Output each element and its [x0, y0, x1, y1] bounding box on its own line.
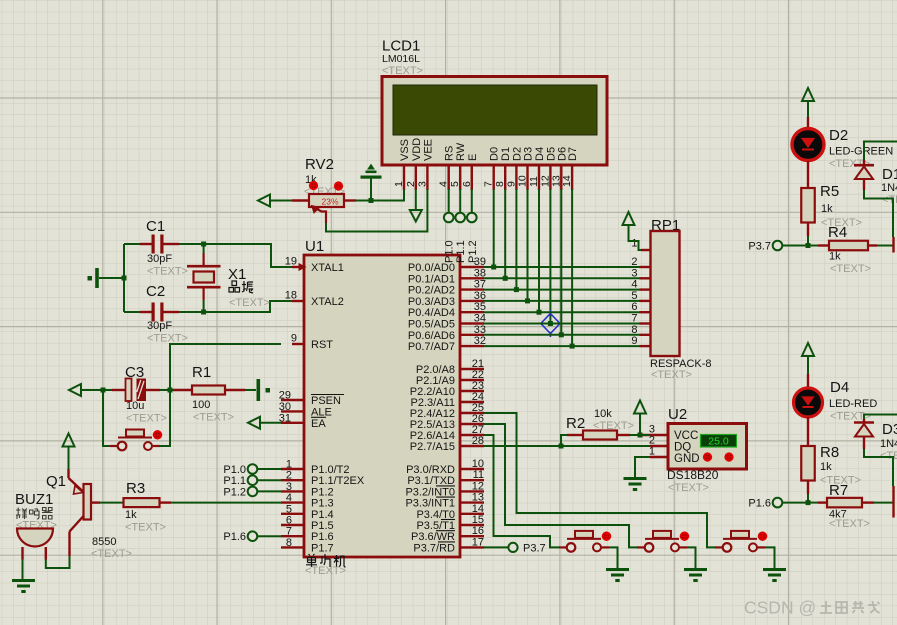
ground terminal (down arrow) at LCD VDD	[410, 210, 422, 222]
svg-text:23%: 23%	[321, 197, 338, 207]
power terminal bar left of crystal rail	[88, 268, 125, 288]
wire R2 right to VCC node	[630, 434, 650, 436]
svg-text:R1: R1	[192, 364, 211, 381]
svg-text:<TEXT>: <TEXT>	[126, 413, 167, 425]
svg-text:Q1: Q1	[46, 473, 66, 490]
wire node to R4	[808, 245, 818, 247]
svg-text:P1.6: P1.6	[311, 531, 334, 543]
resistor R7 4k7	[818, 482, 874, 530]
wire R7 right toward off-page component	[874, 502, 893, 504]
wire RP1 pin1 to power arrow	[629, 225, 642, 251]
svg-text:RV2: RV2	[305, 156, 334, 173]
resistor R2 10k	[566, 408, 634, 440]
svg-text:10k: 10k	[594, 408, 612, 420]
svg-text:5: 5	[631, 290, 637, 302]
svg-text:2: 2	[631, 256, 637, 268]
junction C1/X1 top	[201, 242, 206, 247]
svg-text:E: E	[467, 154, 479, 161]
svg-text:RS: RS	[444, 146, 456, 161]
diode D1 1N4007	[854, 160, 897, 206]
resistor pack RP1 RESPACK-8	[631, 217, 711, 381]
svg-text:19: 19	[285, 256, 297, 268]
svg-text:8: 8	[631, 324, 637, 336]
svg-text:P3.0/RXD: P3.0/RXD	[406, 464, 455, 476]
svg-text:16: 16	[472, 525, 484, 537]
svg-text:ALE: ALE	[311, 406, 332, 418]
wire P1.6 terminal to node	[783, 502, 809, 504]
terminals P1.0 P1.1 P1.2 P1.6 left of U1	[223, 464, 281, 543]
svg-text:P1.6: P1.6	[223, 531, 246, 543]
svg-text:6: 6	[461, 181, 473, 187]
svg-text:4: 4	[631, 279, 637, 291]
svg-text:EA: EA	[311, 418, 326, 430]
wire R3 to U1 pin4 P1.3	[171, 502, 281, 504]
svg-text:VSS: VSS	[399, 139, 411, 161]
wire U2 GND to ground	[635, 457, 650, 477]
wire LCD VEE pin3 down-left to RV2 wiper	[326, 189, 427, 232]
svg-text:25.0: 25.0	[708, 436, 729, 448]
wire VCC node to U2 VCC pin	[640, 434, 650, 436]
wire U1 pin25 P2.4 to button3	[484, 413, 716, 547]
svg-text:D0: D0	[489, 147, 501, 161]
svg-text:10: 10	[517, 175, 529, 187]
wire R5 to P3.7 node	[807, 236, 809, 246]
svg-text:R4: R4	[828, 224, 847, 241]
buzzer BUZ1 蜂鸣器	[15, 491, 57, 560]
wire U1 pin26 P2.5 to button2	[484, 424, 638, 547]
svg-text:<TE: <TE	[882, 194, 897, 206]
svg-text:P0.7/AD7: P0.7/AD7	[408, 341, 455, 353]
junction reset rail / C3-R1 row	[168, 388, 173, 393]
svg-text:U2: U2	[668, 406, 687, 423]
svg-text:4: 4	[286, 492, 292, 504]
svg-text:LCD1: LCD1	[382, 38, 420, 55]
wire button2 to ground	[687, 547, 696, 568]
wire C3 to R1	[160, 389, 173, 391]
ground symbol below button1	[606, 570, 629, 581]
svg-text:1k: 1k	[820, 461, 832, 473]
svg-text:8: 8	[286, 537, 292, 549]
wire LCD VDD pin2 down to ground arrow	[415, 189, 417, 210]
wire C3 row from arrow terminal	[81, 389, 112, 391]
svg-text:30: 30	[279, 401, 291, 413]
svg-text:<TEXT>: <TEXT>	[193, 412, 234, 424]
svg-text:P1.5: P1.5	[311, 520, 334, 532]
svg-text:1k: 1k	[125, 509, 137, 521]
svg-text:3: 3	[286, 481, 292, 493]
junction P1.6 node / R7	[806, 500, 811, 505]
wire RST pin9 to reset rail	[161, 344, 282, 446]
junction C3 row / reset button branch	[101, 388, 106, 393]
svg-text:P0.1/AD1: P0.1/AD1	[408, 273, 455, 285]
LCD1 pin stubs, pin numbers 1-14 and pin names	[393, 138, 579, 190]
terminals P1.0 P1.1 P1.2 below LCD RS/RW/E pins	[444, 189, 479, 263]
wire D1 top to right rail	[864, 142, 897, 161]
svg-text:P1.4: P1.4	[311, 509, 334, 521]
svg-text:13: 13	[472, 492, 484, 504]
LCD display LCD1 LM016L body and screen	[382, 38, 607, 166]
wire LCD VSS pin1 to power rail node	[372, 189, 404, 201]
wire C2 row from left rail to XTAL2	[124, 301, 292, 312]
power terminal (bar symbol) above VSS node	[361, 165, 382, 200]
svg-text:30pF: 30pF	[147, 253, 172, 265]
svg-text:P3.7/RD: P3.7/RD	[413, 542, 455, 554]
svg-text:1k: 1k	[821, 203, 833, 215]
wire reset-button left leg	[103, 390, 110, 446]
svg-text:PSEN: PSEN	[311, 395, 341, 407]
svg-text:P1.2: P1.2	[467, 240, 479, 263]
svg-text:VCC: VCC	[674, 430, 698, 442]
ground symbol below button3	[763, 570, 786, 581]
svg-text:P1.0: P1.0	[223, 464, 246, 476]
svg-text:P1.1/T2EX: P1.1/T2EX	[311, 475, 365, 487]
svg-text:8: 8	[494, 181, 506, 187]
terminal P3.7 right section	[748, 241, 782, 253]
svg-text:<TEXT>: <TEXT>	[91, 548, 132, 560]
svg-text:<TEXT>: <TEXT>	[830, 263, 871, 275]
wire R1 to power bar terminal	[245, 389, 256, 391]
resistor R5 1k	[801, 183, 862, 236]
svg-text:R3: R3	[126, 480, 145, 497]
svg-text:<TEXT>: <TEXT>	[125, 522, 166, 534]
svg-text:R5: R5	[820, 183, 839, 200]
svg-text:P1.1: P1.1	[223, 475, 246, 487]
temperature sensor U2 DS18B20 with display 25.0	[640, 406, 747, 494]
ground symbol below BUZ1	[12, 581, 35, 592]
wire power arrow to D4	[807, 356, 809, 375]
svg-text:CSDN @: CSDN @	[744, 598, 816, 618]
junction P3.7 node / R4	[806, 243, 811, 248]
power terminal arrow above RP1 pin1	[623, 212, 635, 225]
svg-text:7: 7	[631, 313, 637, 325]
svg-text:6: 6	[286, 515, 292, 527]
svg-text:<TEXT>: <TEXT>	[651, 369, 692, 381]
resistor R3 1k	[124, 480, 172, 534]
svg-text:4: 4	[438, 181, 450, 187]
svg-text:P0.2/AD2: P0.2/AD2	[408, 285, 455, 297]
svg-text:3: 3	[631, 267, 637, 279]
svg-text:BUZ1: BUZ1	[15, 491, 53, 508]
wire R2 left leg down to DQ	[561, 435, 567, 446]
svg-text:9: 9	[291, 333, 297, 345]
wire D1 bottom to off-page lead	[864, 190, 893, 237]
svg-text:D3: D3	[882, 421, 897, 438]
transistor Q1 8550 PNP	[46, 469, 132, 560]
svg-text:X1: X1	[228, 266, 246, 283]
svg-text:5: 5	[286, 503, 292, 515]
svg-text:30pF: 30pF	[147, 320, 172, 332]
wire RV2 right terminal to VSS power node	[356, 200, 371, 202]
blue selection cursor diamond at P0.5 junction	[541, 310, 560, 337]
ground symbol below button2	[684, 570, 707, 581]
off-page component lead right of R7	[892, 486, 894, 518]
svg-text:14: 14	[472, 503, 484, 515]
svg-text:LM016L: LM016L	[382, 53, 420, 65]
svg-text:1N4: 1N4	[880, 438, 897, 450]
svg-text:<TEXT>: <TEXT>	[229, 297, 270, 309]
resistor R1 100	[173, 364, 245, 424]
svg-text:9: 9	[631, 335, 637, 347]
svg-text:P0.6/AD6: P0.6/AD6	[408, 330, 455, 342]
svg-text:D1: D1	[500, 147, 512, 161]
svg-text:100: 100	[192, 399, 210, 411]
svg-text:P1.2: P1.2	[223, 486, 246, 498]
terminal P1.6 right section	[748, 498, 782, 510]
svg-text:15: 15	[472, 514, 484, 526]
wire Q1 base to R3	[100, 502, 124, 504]
svg-text:<TEXT>: <TEXT>	[305, 565, 346, 577]
terminal P3.7 at U1 pin17	[508, 543, 545, 555]
wire R8 to P1.6 node	[807, 494, 809, 503]
push button key1	[559, 531, 611, 552]
IC U1 8051 microcontroller body	[304, 238, 460, 557]
svg-text:10: 10	[472, 458, 484, 470]
wire P3.7 terminal to node	[783, 245, 809, 247]
capacitor C1 30pF	[140, 218, 188, 278]
svg-text:P1.7: P1.7	[311, 542, 334, 554]
svg-text:3: 3	[416, 181, 428, 187]
wires LCD D0-D7 down to P0 bus junctions	[491, 189, 574, 349]
svg-text:12: 12	[472, 480, 484, 492]
svg-text:1N4: 1N4	[881, 182, 897, 194]
svg-text:1: 1	[631, 238, 637, 250]
svg-text:LED-RED: LED-RED	[829, 398, 877, 410]
svg-text:P3.7: P3.7	[748, 241, 771, 253]
U1 left pin stubs, numbers and pin names	[279, 256, 365, 555]
svg-text:<TEXT>: <TEXT>	[668, 482, 709, 494]
svg-text:P3.7: P3.7	[523, 543, 546, 555]
wire C1 row from left rail to XTAL1	[124, 244, 292, 267]
wire U1 pin27 P2.6 to button1	[484, 435, 560, 547]
wire power arrow to Q1 emitter	[68, 447, 70, 470]
svg-text:D3: D3	[523, 147, 535, 161]
svg-text:LED-GREEN: LED-GREEN	[829, 146, 893, 158]
junction left rail / power bar	[122, 276, 127, 281]
U1 caption 单片机 and <TEXT>	[305, 554, 346, 577]
watermark CSDN @土田共戈	[744, 598, 880, 618]
LED D4 LED-RED	[794, 374, 878, 446]
push button reset	[110, 430, 162, 451]
svg-text:VDD: VDD	[411, 138, 423, 161]
svg-text:1: 1	[649, 446, 655, 458]
svg-text:DQ: DQ	[674, 442, 691, 454]
svg-text:D4: D4	[534, 147, 546, 161]
power terminal arrow above D4	[802, 343, 814, 356]
wire RV2 left terminal to left arrow terminal	[270, 200, 292, 202]
svg-text:D1: D1	[882, 166, 897, 183]
resistor R8 1k	[801, 444, 861, 494]
svg-text:GND: GND	[674, 453, 700, 465]
wire power arrow to D2	[807, 101, 809, 118]
svg-text:P1.0: P1.0	[444, 240, 456, 263]
svg-text:P0.3/AD3: P0.3/AD3	[408, 296, 455, 308]
svg-text:P1.2: P1.2	[311, 486, 334, 498]
off-page component lead right of R4	[892, 237, 894, 253]
svg-text:R8: R8	[820, 444, 839, 461]
input terminal arrow at EA	[248, 417, 260, 429]
svg-text:1: 1	[393, 181, 405, 187]
input terminal arrow left of RV2	[258, 195, 270, 207]
power terminal arrow above U2	[634, 401, 646, 414]
svg-text:VEE: VEE	[422, 139, 434, 161]
svg-text:7: 7	[286, 526, 292, 538]
power terminal arrow above Q1	[63, 434, 75, 447]
svg-text:8550: 8550	[92, 536, 116, 548]
svg-text:11: 11	[473, 469, 484, 481]
svg-text:<TEXT>: <TEXT>	[147, 333, 188, 345]
junction C2/X1 bottom	[201, 310, 206, 315]
wire power arrow to VCC node	[639, 413, 641, 436]
svg-text:1k: 1k	[829, 251, 841, 263]
svg-text:14: 14	[561, 175, 573, 187]
svg-text:C1: C1	[146, 218, 165, 235]
svg-text:<TEXT>: <TEXT>	[829, 518, 870, 530]
push button key2	[637, 531, 689, 552]
wire U1 pin17 P3.7 to terminal	[484, 546, 508, 548]
capacitor C3 10u electrolytic	[112, 364, 167, 425]
svg-text:U1: U1	[305, 238, 324, 255]
svg-text:C2: C2	[146, 283, 165, 300]
svg-text:17: 17	[472, 536, 484, 548]
crystal X1 晶振	[187, 244, 270, 312]
svg-text:D2: D2	[829, 127, 848, 144]
wire button1 to ground	[609, 547, 618, 568]
svg-text:P3.3/INT1: P3.3/INT1	[405, 498, 455, 510]
U1 right pin stubs, numbers and pin names	[405, 256, 486, 554]
svg-text:7: 7	[483, 181, 495, 187]
ground symbol below U2 GND wire	[624, 479, 647, 490]
svg-text:11: 11	[528, 176, 540, 187]
wire U1 pin28 P2.7 to DS18B20 DQ	[484, 445, 650, 447]
svg-text:29: 29	[279, 390, 291, 402]
svg-text:28: 28	[472, 435, 484, 447]
wire U1 pin31 EA to arrow terminal	[260, 422, 281, 424]
svg-text:6: 6	[631, 301, 637, 313]
wire left rail between C1 and C2	[123, 244, 125, 312]
svg-text:P2.7/A15: P2.7/A15	[410, 441, 455, 453]
wire bus P0.0-P0.7 from U1 to RP1	[484, 267, 640, 346]
junction VSS/RV2/power node	[369, 198, 374, 203]
svg-text:DS18B20: DS18B20	[667, 468, 719, 482]
wire BUZ1 left leg to ground	[22, 560, 24, 580]
wire R4 right toward off-page component	[877, 245, 893, 247]
capacitor C2 30pF	[140, 283, 188, 345]
svg-text:1: 1	[286, 459, 292, 471]
svg-text:RW: RW	[455, 142, 467, 161]
svg-text:D7: D7	[567, 147, 579, 161]
wire BUZ1 right leg to Q1 collector	[46, 556, 70, 568]
resistor R4 1k	[818, 224, 877, 275]
push button key3	[715, 531, 767, 552]
wire D3 bottom to off-page lead	[864, 449, 893, 486]
wire button3 to ground	[765, 547, 775, 568]
power terminal arrow above D2	[802, 88, 814, 101]
svg-text:R7: R7	[829, 482, 848, 499]
svg-text:RST: RST	[311, 339, 333, 351]
junction DQ wire / R2 pull-up	[559, 444, 564, 449]
wire D3 top to right rail	[864, 415, 897, 420]
diode D3 1N4007	[854, 419, 897, 462]
wire node to R7	[808, 502, 818, 504]
svg-text:P1.3: P1.3	[311, 498, 334, 510]
wire reset-button right leg to rail	[160, 445, 170, 447]
potentiometer RV2 1k with wiper and adjust dots	[292, 156, 356, 223]
svg-text:P1.0/T2: P1.0/T2	[311, 464, 350, 476]
svg-text:5: 5	[449, 181, 461, 187]
svg-text:P1.6: P1.6	[748, 498, 771, 510]
svg-text:D4: D4	[830, 379, 849, 396]
power terminal bar right of R1	[257, 379, 271, 401]
svg-text:2: 2	[286, 470, 292, 482]
svg-text:XTAL1: XTAL1	[311, 262, 344, 274]
input terminal arrow left of C3	[69, 384, 81, 396]
svg-text:18: 18	[285, 290, 297, 302]
svg-text:<TEXT>: <TEXT>	[147, 266, 188, 278]
svg-text:P1.1: P1.1	[455, 240, 467, 263]
LED D2 LED-GREEN	[792, 117, 893, 188]
svg-text:P0.4/AD4: P0.4/AD4	[408, 307, 455, 319]
svg-text:P0.5/AD5: P0.5/AD5	[408, 319, 455, 331]
svg-text:XTAL2: XTAL2	[311, 296, 344, 308]
svg-text:2: 2	[405, 181, 417, 187]
junction VCC node at U2	[638, 433, 643, 438]
